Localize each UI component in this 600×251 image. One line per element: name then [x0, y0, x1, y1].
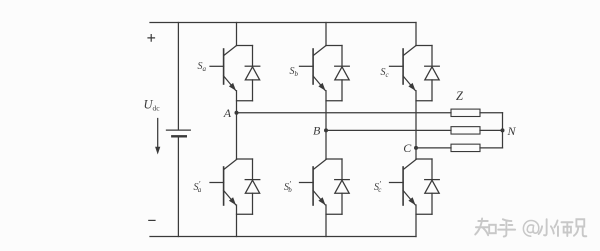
diode Db (antiparallel)	[335, 66, 350, 80]
wire emitter Sc' to bottom rail	[415, 205, 417, 237]
wire phase B output line	[326, 129, 451, 131]
wire phase C output line	[416, 147, 451, 149]
watermark zhihu xiaoshixiong	[475, 219, 586, 237]
label Udc	[144, 98, 161, 113]
label A	[223, 106, 232, 120]
wire node A to lower leg a corner	[236, 113, 238, 159]
wire top DC rail	[150, 22, 416, 24]
svg-text:S′a: S′a	[194, 180, 202, 195]
wire diode Db' anode lead	[341, 193, 343, 214]
wire jog to diode Db'	[326, 158, 342, 160]
wire diode Dc' cathode lead	[431, 159, 433, 180]
wire leg a from top rail	[236, 23, 238, 46]
transistor Sc	[390, 46, 417, 91]
node + terminal label	[148, 35, 155, 42]
wire neutral bus	[502, 113, 504, 148]
diode Da (antiparallel)	[245, 66, 260, 80]
resistor Zc	[451, 144, 480, 151]
wire from top rail to DC source	[177, 23, 179, 130]
node C	[414, 146, 418, 150]
wire diode Dc anode lead	[431, 80, 433, 101]
wire jog to diode Da'	[237, 158, 253, 160]
diode Dc' (antiparallel)	[425, 180, 440, 194]
wire jog to diode Dc	[416, 45, 432, 47]
wire resistor Zc to node N	[480, 147, 503, 149]
label Sa'	[194, 180, 202, 195]
svg-text:Sb: Sb	[290, 66, 299, 78]
label Sc	[381, 67, 390, 79]
svg-text:Sa: Sa	[198, 61, 207, 73]
wire diode Dc' return to emitter	[416, 213, 432, 215]
transistor Sa'	[210, 160, 237, 206]
transistor Sa	[210, 46, 237, 91]
wire diode Db return to emitter	[326, 100, 342, 102]
wire leg c from top rail	[415, 23, 417, 46]
wire node C to lower leg c corner	[415, 148, 417, 159]
transistor Sb	[300, 46, 327, 91]
label B	[313, 124, 321, 138]
diode Db' (antiparallel)	[335, 180, 350, 194]
wire emitter Sa' to bottom rail	[236, 205, 238, 237]
wire emitter Sa to node A	[236, 91, 238, 113]
wire jog to diode Dc'	[416, 158, 432, 160]
wire diode Da anode lead	[252, 80, 254, 101]
wire from DC source to bottom rail	[177, 138, 179, 237]
voltage arrow for Udc	[155, 119, 160, 155]
svg-text:Udc: Udc	[144, 98, 161, 113]
transistor Sb'	[300, 160, 327, 206]
svg-text:B: B	[313, 124, 321, 138]
wire resistor Za to node N	[480, 112, 503, 114]
label Sa	[198, 61, 207, 73]
label Z	[456, 89, 464, 103]
node B	[324, 128, 328, 132]
wire resistor Zb to node N	[480, 129, 503, 131]
wire emitter Sb to node B	[325, 91, 327, 131]
wire diode Da' return to emitter	[237, 213, 253, 215]
svg-text:Z: Z	[456, 89, 464, 103]
wire diode Da cathode lead	[252, 46, 254, 67]
wire diode Dc cathode lead	[431, 46, 433, 67]
label C	[403, 141, 412, 155]
wire leg b from top rail	[325, 23, 327, 46]
svg-text:S′c: S′c	[374, 180, 382, 195]
diode Dc (antiparallel)	[425, 66, 440, 80]
svg-text:C: C	[403, 141, 412, 155]
battery Udc (DC link source)	[167, 130, 191, 136]
wire diode Da return to emitter	[237, 100, 253, 102]
wire emitter Sc to node C	[415, 91, 417, 148]
svg-text:A: A	[223, 106, 232, 120]
wire jog to diode Da	[237, 45, 253, 47]
svg-text:Sc: Sc	[381, 67, 390, 79]
resistor Za	[451, 109, 480, 116]
wire diode Db' cathode lead	[341, 159, 343, 180]
resistor Zb	[451, 127, 480, 134]
label Sc'	[374, 180, 382, 195]
diode Da' (antiparallel)	[245, 180, 260, 194]
transistor Sc'	[390, 160, 417, 206]
node A	[235, 111, 239, 115]
wire emitter Sb' to bottom rail	[325, 205, 327, 237]
label N	[507, 124, 517, 138]
wire node B to lower leg b corner	[325, 130, 327, 159]
node - terminal label	[149, 219, 155, 221]
wire diode Db anode lead	[341, 80, 343, 101]
node N	[501, 128, 505, 132]
label Sb'	[284, 180, 292, 195]
wire jog to diode Db	[326, 45, 342, 47]
wire phase A output line	[237, 112, 452, 114]
wire diode Db' return to emitter	[326, 213, 342, 215]
wire diode Dc return to emitter	[416, 100, 432, 102]
svg-text:N: N	[507, 124, 517, 138]
wire bottom DC rail	[150, 236, 416, 238]
wire diode Da' anode lead	[252, 193, 254, 214]
svg-text:S′b: S′b	[284, 180, 292, 195]
wire diode Db cathode lead	[341, 46, 343, 67]
wire diode Da' cathode lead	[252, 159, 254, 180]
wire diode Dc' anode lead	[431, 193, 433, 214]
label Sb	[290, 66, 299, 78]
